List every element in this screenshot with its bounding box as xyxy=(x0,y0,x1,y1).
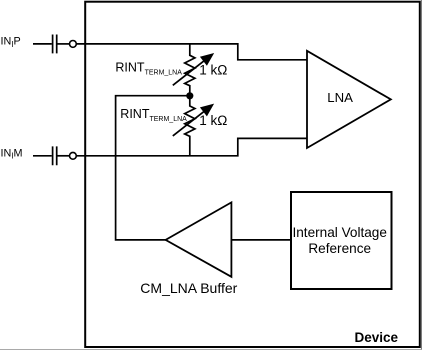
screenshot bottom edge artifact xyxy=(0,348,422,350)
screenshot right edge artifact xyxy=(421,0,422,350)
junction node between resistors xyxy=(186,92,193,99)
internal voltage reference box xyxy=(291,192,392,289)
svg-text:Internal Voltage: Internal Voltage xyxy=(292,225,386,240)
capacitor C bottom (coupling cap on INIM) xyxy=(53,146,57,165)
svg-text:1 kΩ: 1 kΩ xyxy=(199,63,227,78)
svg-text:RINTTERM_LNA: RINTTERM_LNA xyxy=(115,61,182,77)
arrow of variable resistor top xyxy=(173,60,206,86)
wire INIM to LNA negative input (with step up) xyxy=(77,138,308,155)
wire cap to port circle INIM xyxy=(58,155,70,157)
svg-text:INIM: INIM xyxy=(1,147,23,160)
wire cap to port circle INIP xyxy=(58,43,70,45)
port circle INIM xyxy=(70,152,77,159)
capacitor C top (coupling cap on INIP) xyxy=(53,35,57,54)
svg-text:1 kΩ: 1 kΩ xyxy=(199,113,227,128)
svg-text:Reference: Reference xyxy=(308,241,371,256)
op-amp CM_LNA buffer (pointing left) xyxy=(166,202,232,276)
svg-text:Device: Device xyxy=(354,330,398,345)
device boundary rectangle xyxy=(85,2,420,347)
wire junction to CM buffer output (left and down) xyxy=(116,96,190,240)
wire INIP lead-in xyxy=(33,43,52,45)
svg-text:RINTTERM_LNA: RINTTERM_LNA xyxy=(120,107,187,123)
resistor RINT_TERM_LNA bottom (variable, 1 kOhm) xyxy=(185,96,195,156)
svg-text:LNA: LNA xyxy=(327,90,353,105)
svg-text:INIP: INIP xyxy=(1,35,21,48)
svg-text:CM_LNA Buffer: CM_LNA Buffer xyxy=(140,280,237,296)
arrow of variable resistor bottom xyxy=(173,110,206,136)
port circle INIP xyxy=(70,41,77,48)
op-amp LNA xyxy=(307,51,391,148)
wire INIM lead-in xyxy=(33,155,52,157)
resistor RINT_TERM_LNA top (variable, 1 kOhm) xyxy=(185,44,195,96)
wire reference box to buffer input xyxy=(232,239,291,241)
wire INIP to LNA positive input (with step down) xyxy=(77,44,308,60)
